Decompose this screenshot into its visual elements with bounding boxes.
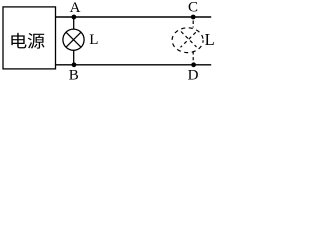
svg-text:C: C xyxy=(188,0,198,16)
svg-text:B: B xyxy=(69,68,79,81)
svg-text:L: L xyxy=(89,32,98,48)
svg-text:L: L xyxy=(205,30,215,49)
svg-text:D: D xyxy=(188,68,199,81)
svg-text:A: A xyxy=(70,0,81,16)
